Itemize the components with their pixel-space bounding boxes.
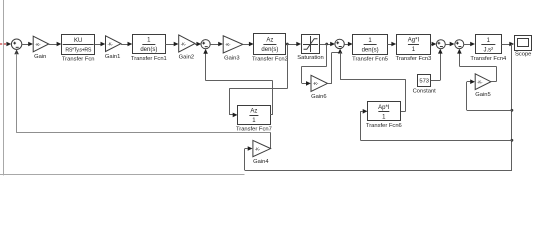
wire Gain4 input riser [244, 149, 246, 171]
transfer fcn Transfer Fcn5 [352, 35, 388, 63]
wire horizontal y=66.3 [302, 66, 327, 68]
arrow into Scope [509, 42, 514, 47]
arrow up into S2 bottom [203, 49, 208, 54]
svg-text:Transfer Fcn2: Transfer Fcn2 [252, 56, 288, 62]
gain Gain5 [475, 74, 491, 98]
wire Transfer Fcn3 to sum S4 [431, 44, 432, 46]
svg-text:Transfer Fcn1: Transfer Fcn1 [131, 56, 167, 62]
wire into Transfer Fcn7 stem [229, 114, 233, 116]
wire up to Gain5 input [466, 82, 468, 111]
svg-text:KU: KU [74, 38, 82, 44]
wire down to Transfer Fcn7 input [229, 89, 231, 115]
svg-text:Gain1: Gain1 [105, 54, 120, 60]
wire into Gain5 stem [467, 81, 471, 83]
wire Gain1 to Transfer Fcn1 [121, 44, 128, 46]
wire Transfer Fcn2 to Saturation [286, 44, 297, 46]
wire Transfer Fcn7 output stub [270, 114, 273, 116]
arrow into sum S5 [450, 42, 455, 47]
svg-text:-K-: -K- [35, 42, 41, 47]
scope block Scope [515, 36, 532, 58]
transfer fcn Transfer Fcn1 [131, 35, 167, 63]
wire Saturation to sum S3 [320, 44, 331, 46]
svg-text:den(s): den(s) [140, 47, 157, 53]
constant block Constant [413, 75, 437, 95]
wire S5 to Transfer Fcn4 [464, 44, 471, 46]
wire into Gain6 stem [302, 83, 306, 85]
wire Transfer Fcn1 to Gain2 [165, 44, 174, 46]
svg-text:Gain2: Gain2 [179, 54, 194, 60]
wire Saturation tap down [326, 44, 328, 66]
svg-text:-K-: -K- [313, 81, 319, 86]
wire Transfer Fcn7 output riser [272, 81, 274, 115]
sum S1 [11, 39, 21, 49]
wire Gain6 output riser [331, 52, 333, 83]
transfer fcn Transfer Fcn4 [470, 35, 507, 63]
wire horizontal y=110.3 [467, 110, 512, 112]
wire bottom horizontal y=170 [245, 170, 512, 172]
gain Gain [33, 36, 49, 60]
wire horizontal y=66.2 to S5 [459, 66, 496, 68]
arrow up into S1 bottom [14, 49, 19, 54]
arrow into Gain6 [306, 81, 311, 86]
wire S3 to Transfer Fcn5 [344, 44, 348, 46]
svg-text:Gain4: Gain4 [253, 159, 269, 165]
svg-text:Transfer Fcn3: Transfer Fcn3 [396, 56, 432, 62]
svg-text:Az: Az [266, 38, 273, 44]
svg-text:-K-: -K- [225, 42, 231, 47]
wire S1 to Gain [22, 44, 29, 46]
svg-text:Gain5: Gain5 [475, 92, 490, 98]
gain Gain4 [253, 140, 271, 165]
svg-text:J.s²: J.s² [484, 47, 494, 53]
wire horizontal y=88.6 [229, 88, 287, 90]
svg-text:Transfer Fcn5: Transfer Fcn5 [352, 57, 388, 63]
wire horizontal y=52.4 to S3 stem [332, 52, 340, 54]
arrow up into S4 bottom [438, 49, 443, 54]
arrow up into S5 bottom [457, 49, 462, 54]
wire into Transfer Fcn6 stem [360, 111, 363, 113]
svg-text:Ag*I: Ag*I [408, 38, 420, 44]
arrow into gain Gain3 [218, 42, 223, 47]
transfer fcn Transfer Fcn2 [252, 34, 288, 63]
svg-text:den(s): den(s) [362, 48, 379, 54]
wire Constant output [431, 80, 441, 82]
svg-text:Gain3: Gain3 [224, 55, 239, 61]
transfer fcn Transfer Fcn7 [236, 106, 272, 133]
svg-text:Transfer Fcn: Transfer Fcn [62, 56, 95, 62]
arrow into gain Gain2 [174, 42, 179, 47]
arrow into Transfer Fcn7 [233, 113, 238, 118]
junction node on Saturation output [325, 43, 328, 46]
svg-text:-K-: -K- [477, 80, 483, 85]
sum S2 [201, 40, 210, 49]
wire up to S5 bottom [459, 53, 461, 66]
arrow into gain Gain [28, 42, 33, 47]
window border bottom edge [0, 174, 245, 176]
wire Transfer Fcn to Gain1 [95, 44, 101, 46]
wire down x=405.6 to Transfer Fcn6 [405, 79, 407, 111]
gain Gain6 [311, 75, 328, 100]
wire down to Gain6 input [301, 66, 303, 83]
gain Gain2 [179, 35, 195, 61]
wire stub into Transfer Fcn6 right edge [400, 111, 406, 113]
sum S4 [436, 40, 445, 49]
wire Gain to Transfer Fcn [49, 44, 57, 46]
svg-text:Gain6: Gain6 [311, 94, 326, 100]
sum S5 [455, 40, 464, 49]
wire Gain3 to Transfer Fcn2 [243, 44, 249, 46]
wire horizontal y=140.3 [360, 140, 512, 142]
wire S2 to Gain3 [210, 44, 218, 46]
input signal red dash-dot wire [0, 43, 7, 45]
svg-text:Gain: Gain [34, 54, 46, 60]
svg-text:RS*Ty.s+RS: RS*Ty.s+RS [65, 47, 92, 53]
wire Gain6 output stub [328, 83, 332, 85]
svg-text:-K-: -K- [255, 146, 261, 151]
arrow into Gain4 [248, 146, 253, 151]
wire bottom feedback horizontal y=133 [17, 132, 271, 134]
saturation block Saturation [297, 35, 323, 61]
arrow into sum S2 [196, 42, 201, 47]
svg-text:Transfer Fcn4: Transfer Fcn4 [470, 56, 507, 62]
wire Transfer Fcn6 input riser [360, 111, 362, 140]
gain Gain1 [105, 36, 121, 60]
wire horizontal y=80.6 back to S2 [206, 80, 273, 82]
wire riser from Gain4 output [270, 133, 272, 149]
arrow up into S3 bottom [338, 49, 343, 54]
junction node on Transfer Fcn2 output [286, 43, 289, 46]
wire up to S4 bottom [440, 53, 442, 80]
svg-text:Az: Az [250, 109, 257, 115]
wire Gain5 output riser [496, 66, 498, 82]
arrow into Transfer Fcn3 [391, 42, 396, 47]
wire up to S3 bottom [340, 51, 342, 52]
wire into Gain4 stem [245, 148, 248, 150]
wire up to S2 bottom [205, 53, 207, 80]
svg-text:Ap*I: Ap*I [378, 105, 390, 111]
junction node on Transfer Fcn4 output [510, 43, 513, 46]
sum S3 [335, 39, 344, 48]
svg-text:-K-: -K- [181, 41, 187, 46]
wire Gain2 to sum S2 [195, 44, 197, 46]
svg-text:Transfer Fcn7: Transfer Fcn7 [236, 126, 272, 132]
arrow into sum S4 [432, 42, 437, 47]
arrow into Transfer Fcn4 [470, 42, 475, 47]
arrow into Gain5 [470, 79, 475, 84]
wire horizontal y=79.3 [340, 79, 406, 81]
wire TF2 tap down [287, 44, 289, 89]
junction node x512 y140 [511, 139, 514, 142]
svg-text:573: 573 [419, 79, 429, 85]
arrow into gain Gain1 [101, 42, 106, 47]
arrow into sum S1 [6, 42, 11, 47]
svg-text:Saturation: Saturation [297, 55, 323, 61]
arrow into Transfer Fcn [57, 42, 62, 47]
svg-text:den(s): den(s) [261, 47, 278, 53]
svg-text:-K-: -K- [108, 41, 114, 46]
window border left edge [3, 0, 5, 175]
wire branch down x=340.1 [340, 52, 342, 79]
junction node x512 y110 [511, 109, 514, 112]
arrow into Transfer Fcn5 [348, 42, 353, 47]
arrow into sum S3 [330, 42, 335, 47]
wire S4 to sum S5 [445, 44, 450, 46]
arrow into Transfer Fcn2 [249, 42, 254, 47]
arrow into Transfer Fcn1 [128, 42, 133, 47]
transfer fcn Transfer Fcn [62, 35, 95, 63]
wire Gain5 output stub [491, 81, 496, 83]
transfer fcn Transfer Fcn6 [366, 102, 402, 130]
svg-text:Transfer Fcn6: Transfer Fcn6 [366, 123, 402, 129]
wire Transfer Fcn4 to Scope [502, 44, 510, 46]
svg-text:Constant: Constant [413, 88, 437, 94]
arrow into Transfer Fcn6 [363, 109, 368, 114]
svg-text:Scope: Scope [515, 52, 531, 58]
arrow into Saturation [296, 42, 301, 47]
transfer fcn Transfer Fcn3 [396, 35, 432, 63]
gain Gain3 [223, 36, 243, 62]
wire S1 bottom stem [16, 54, 18, 133]
wire output tap vertical x=512 [511, 44, 513, 170]
wire Transfer Fcn5 to Transfer Fcn3 [387, 44, 391, 46]
